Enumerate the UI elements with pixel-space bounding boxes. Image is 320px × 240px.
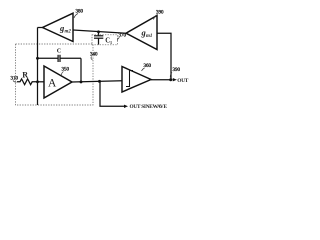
svg-text:C: C [57, 47, 61, 54]
wire buffer output [151, 79, 173, 81]
wire A output to buffer [72, 81, 122, 82]
dashed box around C1 [92, 35, 118, 45]
dashed box integrator block 340 [16, 44, 94, 105]
svg-text:OUT SINEWAVE: OUT SINEWAVE [130, 104, 168, 110]
buffer U1 [122, 67, 151, 93]
svg-text:380: 380 [76, 10, 84, 15]
svg-text:m2: m2 [65, 30, 72, 35]
svg-text:1: 1 [110, 40, 112, 45]
wire left vertical [37, 28, 39, 106]
junction R to A input [36, 80, 39, 83]
wire out sinewave [100, 81, 125, 106]
transconductor gm2 [43, 13, 74, 41]
svg-text:370: 370 [119, 34, 127, 39]
svg-text:m1: m1 [146, 34, 152, 39]
junction out node [169, 78, 172, 81]
junction sinewave tap [98, 80, 101, 83]
transconductor gm1 [126, 16, 157, 50]
op-amp A [44, 66, 72, 98]
junction C1 tap [97, 30, 100, 33]
capacitor C feedback [38, 55, 82, 82]
wire gm1 input from right [157, 33, 171, 79]
svg-text:A: A [48, 78, 57, 90]
wire top node (gm2 input to gm1 output) [73, 30, 126, 33]
arrow out [173, 78, 177, 81]
svg-text:360: 360 [144, 64, 152, 69]
wire to A input [38, 81, 45, 83]
wire gm2 output left [38, 27, 43, 29]
junction C feedback at output [80, 80, 83, 83]
junction feedback top [36, 57, 39, 60]
svg-text:390: 390 [173, 68, 181, 73]
svg-text:310: 310 [11, 77, 19, 82]
svg-text:OUT: OUT [177, 78, 188, 84]
capacitor C1 [94, 32, 103, 45]
step symbol inside buffer [126, 71, 133, 87]
arrow out sinewave [124, 105, 128, 108]
